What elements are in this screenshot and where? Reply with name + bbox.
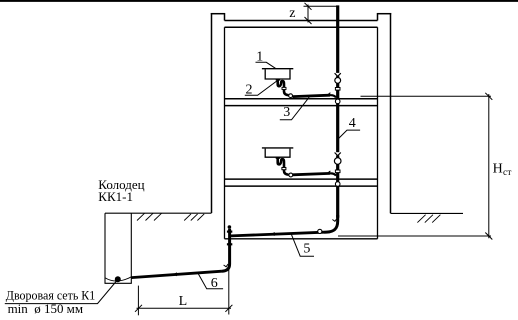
sink 1 basin: [265, 69, 290, 79]
svg-text:КК1-1: КК1-1: [98, 189, 133, 204]
dimension Hst top extension: [361, 95, 492, 97]
ground hatch right: [417, 215, 440, 223]
floor slab 2 top line: [225, 178, 378, 180]
leader label 3: [280, 97, 309, 120]
dimension L left extension: [137, 286, 139, 316]
floor1 slab sleeve circle: [335, 99, 340, 104]
roof top line: [225, 20, 378, 22]
top border line: [0, 0, 518, 2]
dimension z line: [307, 5, 309, 23]
floor1 branch joint mark: [328, 93, 330, 96]
building left outer wall: [211, 13, 213, 213]
svg-text:6: 6: [211, 276, 218, 291]
leader label 1: [256, 62, 277, 68]
ground hatch left group 2: [184, 214, 204, 221]
sink 2 rim: [262, 147, 293, 149]
svg-text:5: 5: [303, 241, 310, 256]
floor slab 1 top line: [225, 98, 378, 100]
branch 3 stack hook: [330, 95, 336, 97]
building right outer wall: [390, 13, 392, 213]
stack top level line: [304, 5, 338, 7]
svg-text:ст: ст: [503, 168, 512, 178]
trap 2 outlet circle: [289, 173, 293, 177]
dimension Hst tick bottom: [485, 233, 492, 240]
floor slab 2 bottom line: [225, 185, 378, 187]
outlet drop pipe: [222, 229, 230, 271]
yard pipe 6: [131, 271, 222, 277]
trap 1 outlet circle: [289, 94, 293, 98]
sink 1 rim: [262, 68, 293, 70]
building parapet inner left: [224, 13, 226, 21]
floor2 stack coupling notch: [335, 170, 340, 173]
dimension L tick left: [135, 305, 142, 312]
svg-text:2: 2: [246, 83, 253, 98]
ceiling line: [225, 26, 378, 28]
branch 4 stack hook: [330, 173, 336, 175]
dimension Hst line: [488, 94, 490, 238]
floor2 branch joint mark: [328, 171, 330, 174]
svg-text:4: 4: [349, 116, 356, 131]
building parapet inner right: [377, 13, 379, 21]
manhole channel tray: [105, 277, 131, 281]
svg-text:min ø 150 мм: min ø 150 мм: [8, 301, 84, 316]
trap 2 drain flange: [276, 157, 281, 159]
floor2 stack cleanout circle: [334, 158, 341, 165]
dimension L line: [137, 307, 232, 309]
svg-text:Дворовая сеть К1: Дворовая сеть К1: [6, 287, 96, 302]
basement pipe 5: [231, 232, 324, 236]
manhole well bottom: [105, 282, 132, 284]
building parapet top left: [211, 13, 225, 15]
manhole pipe inlet dot: [115, 276, 121, 282]
trap 2 (siphon): [278, 157, 289, 175]
building left inner wall: [224, 27, 226, 239]
trap 2 coupling notch: [282, 168, 286, 170]
dimension z tick bottom: [305, 17, 312, 24]
floor slab 1 bottom line: [225, 105, 378, 107]
floor1 stack cleanout circle: [335, 78, 341, 84]
ground line right: [391, 212, 464, 214]
outlet collar 1: [227, 231, 232, 233]
svg-text:3: 3: [283, 105, 290, 120]
dimension L right extension: [228, 267, 230, 315]
trap 1 coupling notch: [282, 87, 286, 89]
pipe 5 chevron joint: [272, 233, 275, 236]
dimension Hst bottom extension: [338, 235, 491, 237]
sewer stack (riser): [336, 5, 339, 217]
svg-text:z: z: [289, 6, 295, 21]
leader label 6: [198, 273, 223, 289]
floor2 stack chevron joint: [335, 152, 340, 155]
label Dvorovaya set underline: [5, 281, 117, 304]
building parapet top right: [377, 13, 391, 15]
svg-text:Н: Н: [493, 162, 503, 177]
leader label 4: [338, 130, 360, 139]
floor1 stack coupling notch: [335, 88, 340, 91]
basement floor line: [225, 238, 378, 240]
svg-text:L: L: [179, 294, 188, 309]
outlet drop bend tick: [224, 264, 229, 267]
manhole well right wall: [130, 213, 132, 283]
floor1 stack chevron joint: [335, 73, 340, 76]
building right inner wall: [377, 27, 379, 239]
leader label 2: [245, 81, 277, 96]
dimension z tick top: [305, 3, 312, 10]
stack bottom bend: [324, 215, 338, 232]
svg-text:1: 1: [256, 49, 263, 64]
outlet collar 2: [227, 243, 232, 245]
branch pipe 3 (floor1): [293, 95, 331, 96]
trap 1 drain flange: [276, 79, 281, 81]
leader label 5: [291, 234, 314, 256]
manhole well left wall: [104, 213, 106, 283]
pipe 6 chevron joint: [174, 273, 177, 276]
stack bend tick: [332, 219, 337, 222]
ground line left: [105, 212, 212, 214]
pipe 5 coupling circle: [318, 229, 322, 233]
ground hatch left group 1: [137, 213, 162, 220]
trap 1 (siphon): [278, 79, 289, 95]
floor2 slab sleeve circle: [335, 182, 340, 187]
sink 2 basin: [265, 149, 290, 158]
dimension Hst tick top: [485, 93, 492, 100]
dimension L tick right: [225, 305, 232, 312]
outlet stub dot: [228, 225, 232, 229]
branch pipe 4 (floor2): [293, 173, 331, 174]
